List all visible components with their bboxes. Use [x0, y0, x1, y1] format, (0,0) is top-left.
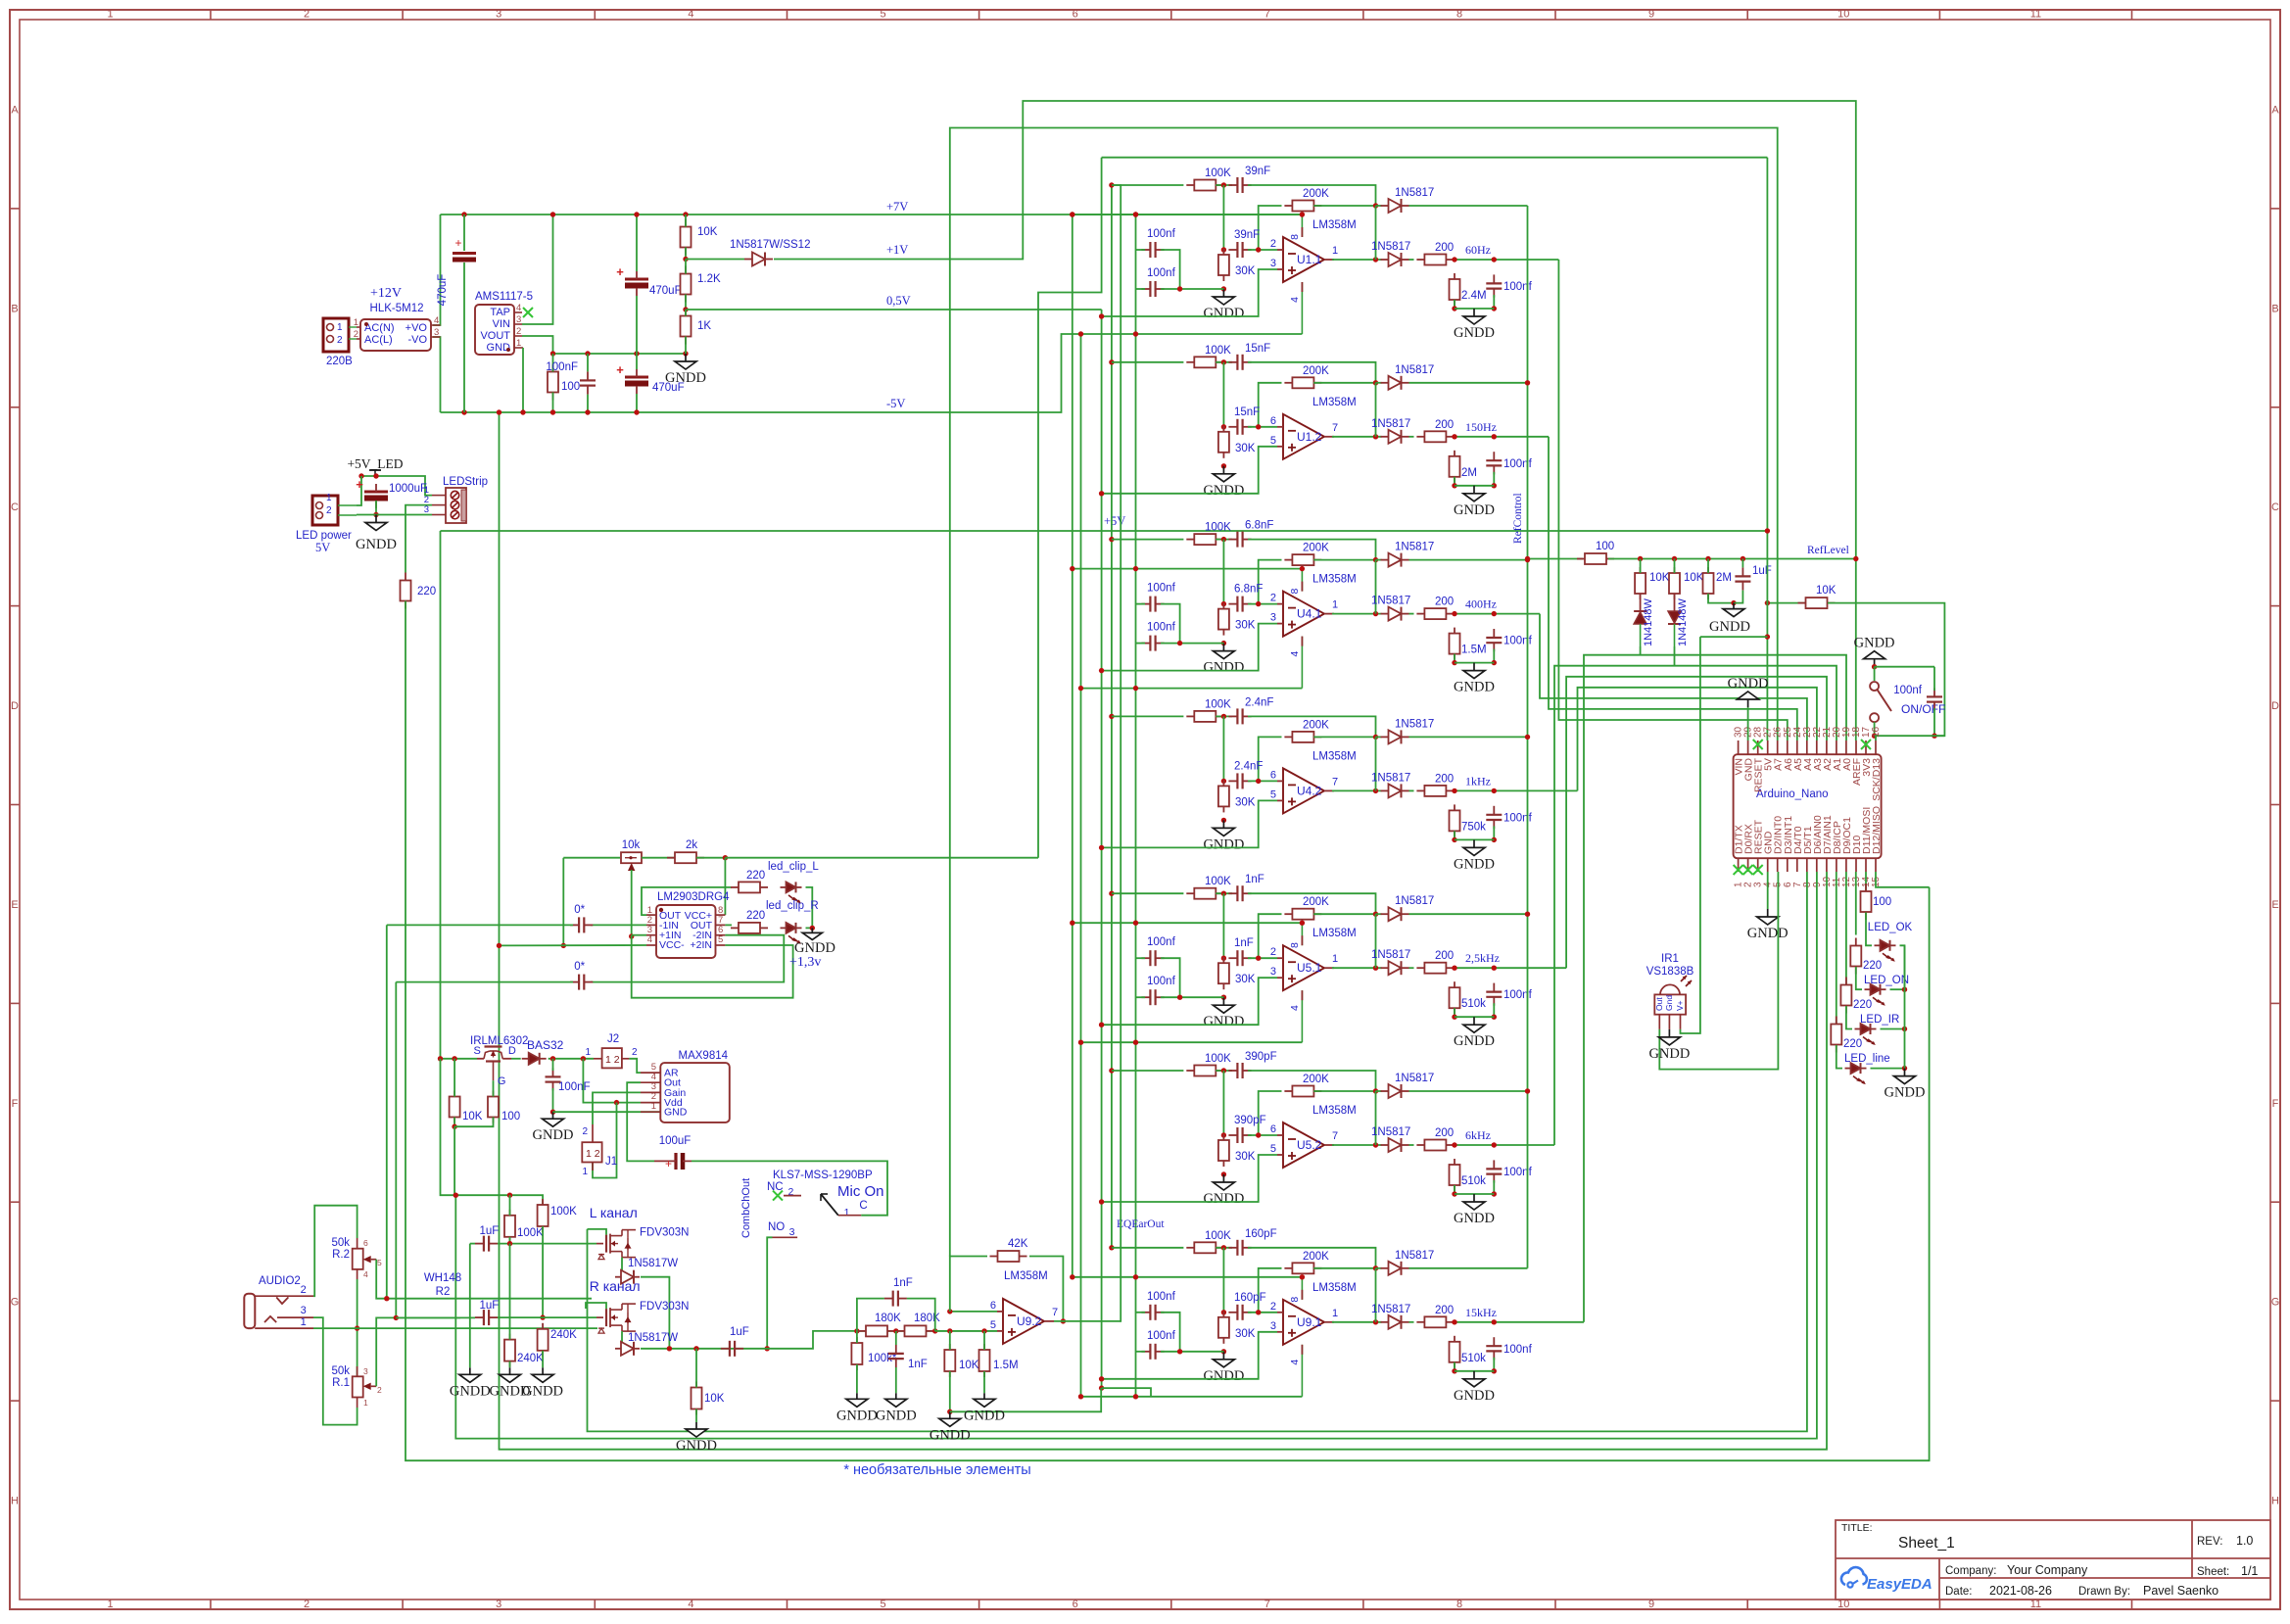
resistor 100K input stage2 — [1186, 345, 1231, 368]
junction stage1 det gnd right — [1492, 306, 1497, 310]
junction stage2 bias bus tap — [1099, 491, 1104, 496]
junction GNDD line at 470uF C3 — [634, 351, 639, 356]
wire vcc node to pin8 — [724, 858, 726, 915]
svg-text:1N5817: 1N5817 — [1395, 895, 1434, 907]
wire LED_OK cathode — [1900, 945, 1905, 989]
part label LEDStrip — [443, 476, 488, 488]
wire mic vcc row — [441, 1058, 478, 1060]
wire stage7 200 to node — [1456, 1321, 1584, 1323]
capacitor 100uF mic out — [654, 1135, 692, 1170]
resistor 510k stage6 detector — [1450, 1159, 1487, 1191]
junction stage7 input node — [1221, 1245, 1226, 1250]
junction 5V at +5V line — [1765, 528, 1770, 533]
wire stage2 200 to node — [1456, 436, 1549, 438]
wire stage6 output — [1332, 1144, 1382, 1146]
junction mic gate row — [452, 1124, 456, 1129]
svg-text:10K: 10K — [697, 226, 718, 238]
svg-text:5: 5 — [990, 1319, 996, 1331]
wire stage7 fb to diode — [1376, 1267, 1382, 1269]
junction stage5 output node — [1373, 966, 1378, 971]
svg-text:16: 16 — [1871, 726, 1882, 738]
junction L bias node — [507, 1241, 512, 1246]
svg-text:1: 1 — [1332, 1308, 1338, 1319]
svg-text:GNDD: GNDD — [1203, 1191, 1244, 1207]
svg-text:GNDD: GNDD — [1203, 660, 1244, 676]
svg-text:C: C — [859, 1200, 867, 1212]
wire stage3 Rdet bottom — [1454, 654, 1455, 663]
wire 100nfB left stage7 — [1136, 1351, 1146, 1353]
wire LED data long down — [406, 601, 1930, 1461]
wire +1V node to diode — [686, 259, 744, 261]
diode 1N5817 output stage4 — [1381, 784, 1409, 797]
svg-text:30K: 30K — [1235, 620, 1256, 632]
junction stage1 inv input — [1256, 247, 1261, 252]
svg-text:L канал: L канал — [590, 1205, 638, 1220]
value 0* L — [574, 904, 585, 916]
svg-text:100nf: 100nf — [1147, 583, 1176, 595]
svg-text:1: 1 — [844, 1207, 850, 1218]
connector LED power — [296, 493, 357, 554]
junction stage6 out RC 1 — [1452, 1142, 1456, 1147]
svg-text:100K: 100K — [1205, 1230, 1231, 1242]
value 100 LED_OK — [1873, 896, 1891, 908]
svg-text:V+: V+ — [1675, 1000, 1685, 1011]
diode 1N5817 output stage7 — [1381, 1315, 1409, 1329]
wire 100K L bottom — [509, 1237, 511, 1244]
diode 1N5817 output stage2 — [1381, 430, 1409, 444]
wire 470uF C2 top — [636, 215, 638, 271]
junction stage1 input node — [1221, 182, 1226, 187]
amplifier MAX9814 U? — [660, 1063, 730, 1122]
svg-text:160pF: 160pF — [1234, 1292, 1266, 1304]
junction stage1 bias bus tap — [1099, 313, 1104, 318]
svg-text:U5.1: U5.1 — [1297, 961, 1322, 975]
junction stage4 det gnd left — [1452, 837, 1456, 842]
resistor 1.5M sum — [979, 1344, 1019, 1377]
svg-text:1N5817: 1N5817 — [1371, 1126, 1410, 1138]
wire +5V down left — [440, 531, 442, 1059]
capacitor 100nf output stage1 — [1486, 274, 1532, 297]
LED LED_ON — [1865, 984, 1886, 1006]
wire stage2 output — [1332, 436, 1382, 438]
svg-text:EasyEDA: EasyEDA — [1867, 1576, 1932, 1593]
svg-text:4: 4 — [688, 1599, 693, 1610]
svg-text:HLK-5M12: HLK-5M12 — [370, 303, 424, 314]
wire stage4 input row — [1112, 715, 1184, 717]
ground GNDD 240K L — [490, 1367, 531, 1399]
wire bus decoupling vertical — [1135, 215, 1137, 1397]
wire 5V to 10K row — [1767, 602, 1805, 604]
part 1N5817 output stage5 — [1371, 949, 1410, 961]
junction pots common at pin1 — [355, 1325, 359, 1330]
wire stage3 diode1 to RefControl — [1409, 559, 1528, 561]
wire 10K bottom to +1V node — [685, 248, 687, 260]
junction stage4 input node — [1221, 714, 1226, 719]
wire LED_line cathode — [1871, 1068, 1905, 1070]
net label EQEarOut — [1117, 1218, 1165, 1230]
net label led_clip_R — [766, 900, 819, 912]
wire R.2 wiper out — [376, 1260, 460, 1299]
svg-text:Sheet:: Sheet: — [2197, 1566, 2229, 1578]
wire stage1 output — [1332, 259, 1382, 261]
svg-text:200K: 200K — [1303, 1074, 1329, 1085]
part 1N5817 output stage1 — [1371, 241, 1410, 253]
junction +5V_LED at cap — [373, 473, 378, 478]
svg-text:+5V_LED: +5V_LED — [347, 456, 403, 471]
junction -5V branch bus2 stage7 — [1078, 1394, 1083, 1399]
wire stage7 cap2 to pin — [1248, 1312, 1277, 1314]
junction RefControl stage4 — [1525, 735, 1530, 740]
resistor 30K stage2 — [1218, 426, 1256, 458]
junction GNDD 2M/1uF — [1731, 600, 1736, 605]
resistor 220 clip L — [731, 870, 768, 892]
wire 42K right — [1029, 1257, 1063, 1321]
svg-text:1.5M: 1.5M — [1461, 645, 1487, 656]
wire stage6 det gnd row — [1455, 1193, 1494, 1195]
junction U9.2 out — [1061, 1318, 1066, 1323]
resistor 100K input stage7 — [1186, 1230, 1231, 1254]
part label LM358M stage2 — [1312, 397, 1357, 408]
wire stage1 to ADC fan — [1558, 260, 1787, 740]
regulator AMS1117-5 U? — [475, 305, 514, 355]
svg-text:4: 4 — [1289, 1360, 1301, 1365]
part label LM358M U9.2 — [1004, 1270, 1048, 1282]
wire stage1 cap to corner — [1248, 185, 1376, 206]
wire 100K L top — [509, 1195, 511, 1216]
svg-text:GNDD: GNDD — [1454, 325, 1495, 341]
capacitor 100nf output stage7 — [1486, 1337, 1532, 1360]
svg-text:8: 8 — [1289, 588, 1301, 594]
svg-text:3: 3 — [363, 1366, 368, 1376]
svg-text:1nF: 1nF — [1234, 937, 1254, 949]
junction clip vcc node — [723, 855, 728, 860]
part label LM358M stage5 — [1312, 928, 1357, 939]
junction RefControl stage6 — [1525, 1088, 1530, 1093]
junction stage7 bias bus tap — [1099, 1376, 1104, 1381]
diode 1N5817W R — [615, 1342, 640, 1356]
junction R sense tap — [394, 1315, 399, 1320]
wire stage7 pin3 bias — [1102, 1332, 1277, 1379]
svg-text:1N5817W: 1N5817W — [628, 1332, 678, 1344]
junction LED_IR cathode — [1902, 1027, 1907, 1031]
svg-text:3: 3 — [1270, 966, 1276, 978]
diode 1N5817 feedback stage4 — [1381, 718, 1435, 743]
wire 470uF C2 bottom — [636, 296, 638, 354]
svg-text:2,5kHz: 2,5kHz — [1465, 951, 1500, 965]
part label LM358M stage3 — [1312, 574, 1357, 586]
resistor 200K feedback stage4 — [1284, 719, 1329, 742]
svg-text:10K: 10K — [1684, 572, 1704, 584]
svg-text:5: 5 — [377, 1258, 382, 1267]
wire LEDStrip pin2 data down — [406, 505, 432, 573]
junction pin8 branch stage7 — [1300, 1274, 1305, 1279]
svg-text:100nF: 100nF — [546, 361, 578, 373]
svg-text:GNDD: GNDD — [665, 370, 706, 386]
resistor 100K input stage3 — [1186, 522, 1231, 546]
junction stage6 30K bottom — [1221, 1171, 1226, 1176]
wire -2IN from 0* cap R — [591, 935, 785, 982]
diode 1N5817 feedback stage3 — [1381, 542, 1435, 567]
svg-text:200K: 200K — [1303, 1251, 1329, 1263]
svg-text:-VO: -VO — [407, 334, 427, 346]
junction stage6 output node — [1373, 1142, 1378, 1147]
wire 2k to vcc node — [696, 857, 725, 859]
junction -5V branch bus5 stage5 — [1133, 1040, 1138, 1045]
op-amp U5.1 LM358M stage5 — [1270, 945, 1338, 990]
junction pot left at VCC- — [561, 943, 566, 948]
wire D to BAS32 — [511, 1058, 521, 1060]
MAX9814 pins — [641, 1062, 688, 1119]
junction stage2 inv input — [1256, 424, 1261, 429]
svg-text:VOUT: VOUT — [480, 330, 510, 342]
svg-text:GNDD: GNDD — [676, 1438, 717, 1454]
svg-text:LM2903DRG4: LM2903DRG4 — [657, 891, 730, 903]
svg-text:3: 3 — [1270, 1320, 1276, 1332]
svg-text:6: 6 — [1270, 415, 1276, 427]
svg-text:GNDD: GNDD — [1454, 680, 1495, 695]
no-connect X pin 17 — [1861, 740, 1871, 749]
ground GNDD near pin29 — [1728, 676, 1769, 707]
svg-text:1: 1 — [337, 322, 343, 333]
wire stage6 Rdet bottom — [1454, 1185, 1455, 1194]
svg-text:E: E — [11, 899, 18, 911]
wire +2IN loop — [632, 936, 793, 998]
wire +VO to +7V rail — [433, 215, 441, 325]
svg-text:GNDD: GNDD — [1884, 1085, 1926, 1101]
junction +7V branch bus1 stage3 — [1070, 566, 1074, 571]
junction pin8 branch stage1 — [1300, 212, 1305, 216]
svg-text:7: 7 — [1332, 776, 1338, 788]
LED LED_IR — [1855, 1024, 1877, 1045]
wire VIN to +7V — [522, 215, 553, 324]
net label RefLevel — [1807, 545, 1849, 556]
junction +7V branch bus5 stage3 — [1133, 566, 1138, 571]
pin 8 V+ stage5 — [1289, 923, 1302, 948]
svg-text:1nF: 1nF — [1245, 874, 1264, 885]
wire bus3 top segment (+5V to comparator) — [1038, 158, 1102, 858]
wire 100nfA left stage3 — [1136, 603, 1146, 605]
svg-text:220: 220 — [417, 586, 436, 597]
op-amp U1.1 LM358M stage1 — [1270, 237, 1338, 282]
svg-text:G: G — [11, 1297, 20, 1309]
svg-text:3: 3 — [301, 1305, 307, 1316]
pin 4 V- stage5 — [1289, 990, 1302, 1042]
junction stage5 pin2 cap left — [1221, 956, 1226, 961]
ground GNDD mic — [533, 1112, 574, 1143]
wire -1IN from 0* cap — [591, 924, 646, 926]
part label Arduino_Nano — [1756, 788, 1829, 800]
svg-text:50k: 50k — [331, 1365, 350, 1377]
svg-text:220: 220 — [1843, 1038, 1862, 1050]
svg-text:WH148: WH148 — [424, 1272, 461, 1284]
svg-text:1N5817W/SS12: 1N5817W/SS12 — [730, 239, 810, 251]
wire 5V vertical — [1766, 158, 1768, 740]
wire stage7 diode2 to 200 — [1409, 1321, 1414, 1323]
wire stage4 diode1 to RefControl — [1409, 736, 1528, 738]
junction stage7 30K bottom — [1221, 1349, 1226, 1354]
ground GNDD stage2 bias — [1203, 466, 1244, 499]
wire diode B to fan — [1674, 646, 1676, 666]
junction 100nf join stage3 — [1177, 641, 1182, 645]
capacitor 1000uF — [356, 477, 427, 508]
wire stage6 200 to node — [1456, 1144, 1554, 1146]
capacitor 100nF (GNDD to -5V) — [580, 371, 596, 394]
svg-text:0*: 0* — [574, 961, 585, 973]
svg-text:GND: GND — [487, 342, 511, 354]
svg-text:+2IN: +2IN — [691, 939, 712, 951]
capacitor 100nF mic — [546, 1068, 561, 1090]
junction +7V branch bus5 stage7 — [1133, 1274, 1138, 1279]
wire D10 to 220 OK? (pin13) — [1855, 872, 1857, 935]
ground GNDD IR — [1648, 1029, 1690, 1062]
wire 100nfB right stage1 — [1161, 288, 1223, 290]
resistor 200K feedback stage1 — [1284, 188, 1329, 212]
svg-text:1/1: 1/1 — [2241, 1564, 2258, 1578]
wire stage2 to ADC fan — [1549, 437, 1797, 740]
resistor 200K feedback stage6 — [1284, 1074, 1329, 1097]
wire stage4 diode2 to 200 — [1409, 789, 1414, 791]
net label led_clip_L — [768, 861, 819, 873]
resistor 200 output stage6 — [1416, 1127, 1454, 1151]
junction +1V node — [683, 257, 688, 262]
svg-text:470uF: 470uF — [649, 285, 682, 297]
junction stage7 pin2 cap left — [1221, 1310, 1226, 1314]
resistor 220 (LED data) — [401, 573, 437, 609]
wire jack pin1 row — [313, 1327, 597, 1329]
wire 10K audio top lead — [695, 1349, 697, 1388]
junction stage3 feedback node — [1373, 557, 1378, 562]
svg-text:+1V: +1V — [886, 243, 908, 257]
node stage7 input bus tap — [1109, 1245, 1114, 1250]
capacitor 470uF C3 (GNDD to -5V) — [616, 362, 684, 394]
part BAS32 — [527, 1038, 564, 1052]
wire diode L to join — [641, 1277, 669, 1349]
LED LED_line — [1845, 1063, 1867, 1084]
wire 0* L left — [387, 924, 573, 926]
wire jack pin3 to R.1 bottom — [313, 1317, 358, 1425]
svg-text:200: 200 — [1435, 597, 1454, 608]
junction stage2 out RC 2 — [1492, 434, 1497, 439]
wire stage1 200K right — [1313, 205, 1375, 207]
wire 10K to switch box — [1828, 603, 1944, 737]
wire stage5 200 to node — [1456, 967, 1566, 969]
capacitor 2.4nF C2 stage4 — [1228, 760, 1263, 788]
wire D9 to 220 IR (pin12) — [1845, 872, 1847, 984]
svg-text:2: 2 — [632, 1047, 638, 1058]
junction 100nf join stage7 — [1177, 1349, 1182, 1354]
ground GNDD 10K sum — [930, 1411, 971, 1443]
ground GNDD stage1 detector — [1454, 309, 1495, 341]
wire 100nfA right stage1 — [1161, 250, 1180, 289]
wire stage7 cap to corner — [1248, 1248, 1376, 1268]
svg-text:LED_IR: LED_IR — [1860, 1014, 1899, 1026]
svg-text:AUDIO2: AUDIO2 — [259, 1275, 301, 1287]
no-connect X pin 28 — [1753, 740, 1763, 749]
wire LED cathode bus — [1904, 945, 1906, 1068]
op-amp U9.1 LM358M stage7 — [1270, 1300, 1338, 1345]
svg-text:3: 3 — [496, 1599, 501, 1610]
wire stage6 cap to corner — [1248, 1071, 1376, 1091]
junction stage2 pin2 cap left — [1221, 424, 1226, 429]
wire 240K R bottom — [542, 1351, 544, 1367]
jumper J1 — [582, 1124, 617, 1177]
junction +7V at 470uF C2 — [634, 212, 639, 216]
junction RefControl stage2 — [1525, 380, 1530, 385]
wire D12/MISO route — [1876, 872, 1930, 887]
wire 220 to LED_IR — [1846, 1006, 1852, 1029]
svg-text:J2: J2 — [607, 1033, 619, 1045]
junction mic vdd tap — [581, 1056, 586, 1061]
wire 100k* bottom — [856, 1364, 858, 1393]
svg-text:1nF: 1nF — [908, 1359, 928, 1370]
junction pin8 branch stage5 — [1300, 921, 1305, 926]
value 220 LED_ON — [1863, 960, 1882, 972]
wire vcc node right to +5V riser — [725, 857, 1038, 859]
svg-text:GNDD: GNDD — [1454, 1388, 1495, 1404]
wire 100uF to switch — [692, 1161, 887, 1215]
wire stage5 diode2 to 200 — [1409, 967, 1414, 969]
LED led_clip_R — [781, 923, 802, 944]
svg-text:GNDD: GNDD — [1709, 619, 1750, 635]
resistor 180K A — [858, 1313, 901, 1336]
wire stage5 output — [1332, 967, 1382, 969]
wire stage5 Cdet bottom — [1493, 1003, 1495, 1017]
wire stage2 200K right — [1313, 382, 1375, 384]
svg-text:470uF: 470uF — [437, 274, 449, 307]
svg-text:200K: 200K — [1303, 896, 1329, 908]
transistor IRLML6302 Q? — [474, 1045, 516, 1087]
junction pullup rail at 100K L — [507, 1193, 512, 1198]
svg-text:10K: 10K — [1649, 572, 1670, 584]
resistor 100 mic gate — [488, 1091, 520, 1123]
svg-text:R канал: R канал — [590, 1278, 641, 1294]
svg-text:3: 3 — [424, 504, 429, 515]
svg-text:GNDD: GNDD — [1728, 676, 1769, 692]
resistor 100K input stage1 — [1186, 167, 1231, 191]
wire stage2 diode1 to RefControl — [1409, 382, 1528, 384]
junction RefLevel at 10K-2 — [1672, 556, 1677, 561]
capacitor 100nf decouple A stage1 — [1141, 228, 1175, 258]
svg-text:4: 4 — [363, 1269, 368, 1279]
svg-text:1N5817: 1N5817 — [1395, 187, 1434, 199]
svg-text:6: 6 — [990, 1300, 996, 1312]
wire FET L out to diode — [620, 1258, 622, 1277]
capacitor 39nF C-series stage1 — [1228, 166, 1270, 193]
wire 1nF fb right — [907, 1299, 935, 1331]
ground GNDD stage7 detector — [1454, 1371, 1495, 1404]
resistor 240K R — [538, 1323, 578, 1357]
wire stage5 200K left — [1259, 914, 1282, 958]
wire stage5 output to fb — [1375, 914, 1377, 968]
pin 8 V+ stage3 — [1289, 569, 1302, 595]
resistor 30K stage5 — [1218, 957, 1256, 989]
diode BAS32 — [522, 1053, 547, 1065]
wire stage3 fb to diode — [1376, 559, 1382, 561]
node stage4 input bus tap — [1109, 714, 1114, 719]
wire bus -5V vertical — [1080, 334, 1082, 1397]
part 1N5817 output stage7 — [1371, 1304, 1410, 1315]
wire stage1 Rdet bottom — [1454, 300, 1455, 309]
resistor 220 clip R — [731, 910, 768, 933]
junction stage1 det gnd left — [1452, 306, 1456, 310]
junction stage1 out RC 2 — [1492, 257, 1497, 262]
junction stage5 out RC 1 — [1452, 966, 1456, 971]
svg-text:Pavel Saenko: Pavel Saenko — [2143, 1584, 2218, 1598]
diode 1N5817 output stage6 — [1381, 1138, 1409, 1152]
svg-text:B: B — [2271, 303, 2278, 314]
wire 0* R left — [396, 981, 573, 983]
svg-text:GNDD: GNDD — [836, 1408, 878, 1423]
